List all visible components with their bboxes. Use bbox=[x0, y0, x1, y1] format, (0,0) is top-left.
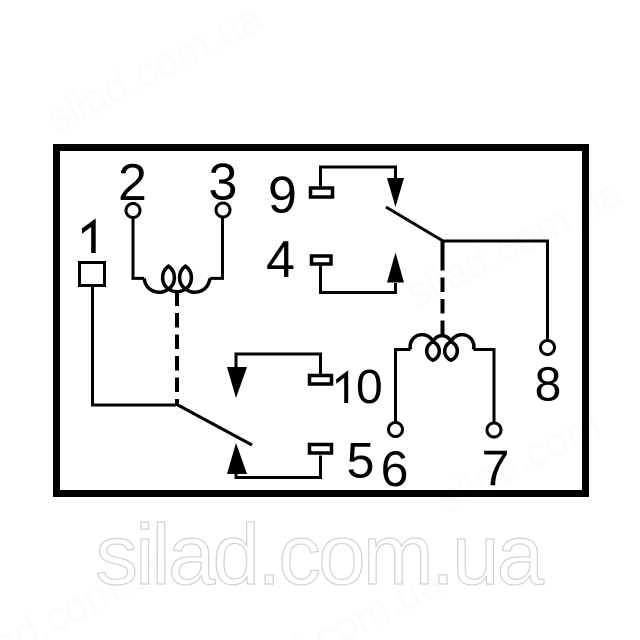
svg-text:9: 9 bbox=[268, 167, 297, 225]
svg-text:4: 4 bbox=[266, 231, 295, 289]
svg-text:8: 8 bbox=[535, 359, 562, 412]
svg-text:6: 6 bbox=[381, 441, 409, 497]
svg-text:2: 2 bbox=[118, 154, 147, 212]
svg-text:5: 5 bbox=[347, 433, 375, 489]
svg-text:0: 0 bbox=[356, 361, 383, 414]
svg-text:7: 7 bbox=[482, 441, 510, 497]
svg-text:3: 3 bbox=[209, 154, 238, 212]
